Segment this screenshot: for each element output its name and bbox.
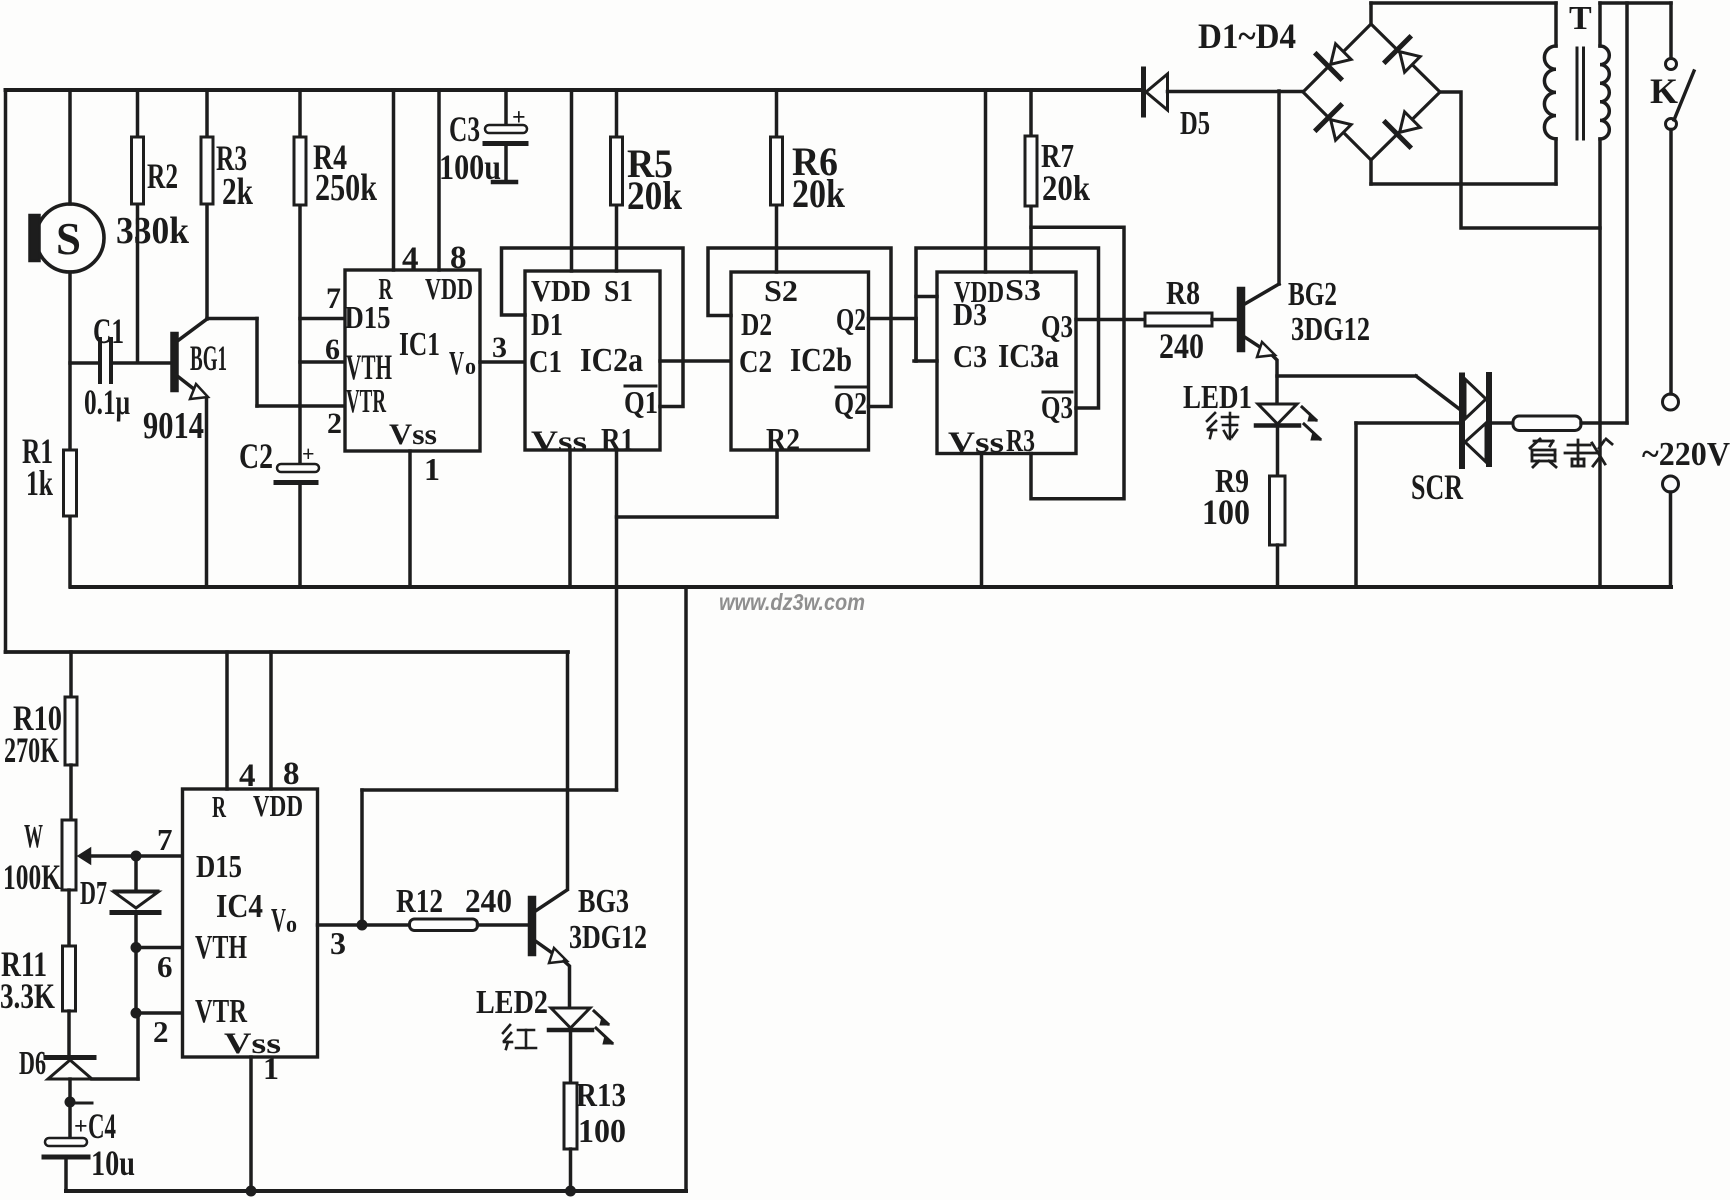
svg-text:C1: C1 bbox=[529, 343, 562, 379]
svg-text:R2: R2 bbox=[766, 421, 800, 457]
svg-text:VDD: VDD bbox=[253, 788, 303, 823]
capacitor C3 bbox=[439, 90, 527, 187]
svg-text:Vss: Vss bbox=[531, 425, 587, 458]
wire IC2a to IC2b bbox=[660, 359, 731, 363]
junction Vo node bbox=[357, 920, 368, 931]
svg-text:Q1: Q1 bbox=[624, 384, 658, 420]
svg-text:S2: S2 bbox=[764, 273, 798, 308]
svg-text:3: 3 bbox=[492, 331, 507, 364]
svg-text:C2: C2 bbox=[739, 343, 772, 379]
resistor R11 bbox=[0, 944, 76, 1016]
svg-text:4: 4 bbox=[402, 241, 419, 277]
junction below D6 bbox=[65, 1097, 93, 1108]
wire bottom ground bus bbox=[66, 1189, 686, 1193]
svg-text:250k: 250k bbox=[315, 167, 378, 209]
wire W bottom bbox=[67, 890, 71, 946]
microphone S bbox=[30, 204, 105, 272]
switch K bbox=[1650, 3, 1694, 130]
IC IC4 bbox=[183, 788, 318, 1060]
svg-text:100K: 100K bbox=[3, 857, 61, 897]
wire left border bbox=[4, 90, 8, 652]
resistor R6 bbox=[771, 137, 846, 216]
triac SCR bbox=[1411, 375, 1489, 507]
label green lv bbox=[1207, 413, 1238, 439]
wire IC1 pin1 bbox=[410, 451, 440, 587]
wire IC3a Q3 out bbox=[1076, 318, 1145, 322]
wire bridge right bbox=[1440, 92, 1600, 228]
terminal 220V bottom bbox=[1663, 476, 1679, 492]
wire C4 to bus bbox=[64, 1160, 68, 1191]
svg-text:20k: 20k bbox=[792, 171, 846, 216]
IC IC3a bbox=[937, 272, 1076, 459]
svg-text:20k: 20k bbox=[627, 173, 683, 218]
wire top supply bus bbox=[6, 88, 1144, 92]
wire bridge top bbox=[1371, 3, 1556, 24]
diode D5 bbox=[1144, 69, 1211, 142]
svg-text:2: 2 bbox=[153, 1014, 169, 1049]
svg-text:8: 8 bbox=[450, 240, 467, 276]
wire R4 column bbox=[298, 90, 302, 464]
IC IC2b bbox=[731, 272, 869, 457]
svg-text:BG1: BG1 bbox=[190, 338, 227, 378]
wire C2 down bbox=[298, 486, 302, 587]
wire IC1 pin4 bbox=[394, 90, 419, 277]
label load fuzai bbox=[1530, 439, 1612, 467]
svg-text:VTH: VTH bbox=[346, 347, 392, 387]
wire R7 to R3 loop bbox=[1031, 227, 1124, 498]
wire reset to bottom bbox=[362, 788, 617, 792]
wire SCR to load bbox=[1492, 421, 1513, 425]
diode D6 bbox=[19, 1045, 94, 1082]
svg-text:D5: D5 bbox=[1180, 105, 1210, 142]
wire IC3a wrap D3-Q3 bbox=[916, 248, 1099, 408]
potentiometer W bbox=[3, 818, 90, 897]
transformer T right winding bbox=[1600, 3, 1609, 587]
svg-text:R2: R2 bbox=[147, 156, 178, 196]
wire pin6 link IC4 bbox=[136, 948, 183, 985]
junction pin2 node bbox=[131, 1008, 142, 1019]
svg-text:C3: C3 bbox=[449, 109, 480, 149]
svg-text:D2: D2 bbox=[741, 306, 772, 342]
svg-text:D15: D15 bbox=[345, 299, 391, 335]
wire D5 to bridge bbox=[1168, 90, 1304, 94]
transformer T left winding bbox=[1544, 0, 1592, 184]
svg-text:BG3: BG3 bbox=[578, 883, 629, 920]
svg-text:LED2: LED2 bbox=[476, 984, 548, 1021]
svg-text:1k: 1k bbox=[26, 463, 53, 503]
wire IC2a Vss down bbox=[568, 450, 572, 587]
svg-text:IC3a: IC3a bbox=[998, 338, 1059, 375]
svg-text:Vss: Vss bbox=[389, 418, 437, 451]
wire R9 down bbox=[1276, 545, 1280, 587]
wire R7 S3 column bbox=[1029, 90, 1033, 272]
svg-text:3DG12: 3DG12 bbox=[1291, 311, 1370, 348]
svg-text:1: 1 bbox=[424, 451, 440, 487]
svg-text:VDD: VDD bbox=[531, 273, 591, 308]
wire R13 down bbox=[569, 1149, 573, 1191]
svg-text:S1: S1 bbox=[604, 273, 633, 308]
wire D7 top bbox=[134, 856, 138, 889]
svg-text:BG2: BG2 bbox=[1288, 276, 1337, 313]
IC IC2a bbox=[525, 271, 660, 458]
wire LED1 to R9 bbox=[1276, 427, 1280, 476]
svg-text:D15: D15 bbox=[196, 848, 242, 884]
wire bus to bottom right border bbox=[684, 587, 688, 1191]
junction pin6 node bbox=[131, 942, 142, 953]
wire pin2 column to D6 anode bbox=[92, 1013, 138, 1079]
transistor BG3 bbox=[529, 883, 647, 963]
svg-text:S3: S3 bbox=[1005, 272, 1041, 307]
wire IC3a Vss down bbox=[980, 454, 984, 588]
svg-text:6: 6 bbox=[157, 949, 173, 984]
svg-text:Q2: Q2 bbox=[834, 385, 867, 421]
label pin2 bbox=[327, 407, 342, 440]
IC IC1 bbox=[345, 270, 481, 451]
wire IC3a VDD bbox=[984, 90, 988, 272]
wire IC4 pin8 bbox=[271, 652, 300, 792]
svg-text:Q2: Q2 bbox=[836, 301, 866, 337]
svg-text:4: 4 bbox=[239, 758, 256, 794]
wire load riser bbox=[1625, 3, 1629, 423]
svg-text:C3: C3 bbox=[953, 338, 987, 374]
svg-text:SCR: SCR bbox=[1411, 467, 1464, 507]
svg-text:240: 240 bbox=[465, 883, 512, 920]
wire BG3 emitter down bbox=[564, 961, 570, 1008]
resistor R5 bbox=[611, 137, 683, 218]
wire R11 to D6 bbox=[67, 1011, 71, 1057]
wire IC2b Q2 out bbox=[869, 317, 917, 321]
wire reset column R1 bbox=[615, 450, 619, 790]
svg-text:C4: C4 bbox=[88, 1106, 116, 1146]
capacitor C1 bbox=[84, 311, 130, 422]
resistor R3 bbox=[201, 137, 254, 213]
wire R8 to BG2 bbox=[1212, 318, 1238, 322]
wire bridge bottom bbox=[1371, 160, 1556, 184]
wire D7 to pin6 bbox=[134, 916, 138, 948]
label ~220V bbox=[1642, 436, 1730, 473]
svg-text:7: 7 bbox=[157, 822, 173, 857]
wire IC1 pin8 bbox=[439, 90, 467, 276]
wire BG3 collector riser bbox=[566, 652, 570, 889]
junction pin1 bus bbox=[246, 1186, 257, 1197]
svg-text:D1: D1 bbox=[531, 306, 563, 342]
wire R3 column bbox=[205, 90, 209, 319]
wire D6 down bbox=[68, 1079, 72, 1102]
svg-text:D7: D7 bbox=[80, 875, 107, 912]
wire R2 column bbox=[136, 90, 140, 361]
svg-text:2k: 2k bbox=[222, 171, 254, 213]
svg-text:VDD: VDD bbox=[425, 271, 473, 306]
svg-text:V: V bbox=[449, 345, 464, 382]
svg-text:D6: D6 bbox=[19, 1045, 46, 1082]
resistor R13 bbox=[564, 1077, 626, 1150]
wire R10 to W bbox=[69, 765, 73, 820]
wire middle ground bus bbox=[71, 585, 1671, 589]
svg-text:K: K bbox=[1650, 71, 1678, 111]
svg-text:+: + bbox=[512, 105, 526, 131]
svg-text:3DG12: 3DG12 bbox=[569, 919, 647, 956]
svg-text:www.dz3w.com: www.dz3w.com bbox=[719, 589, 865, 615]
wire IC1 Vo out pin3 bbox=[480, 331, 525, 364]
svg-text:C2: C2 bbox=[239, 436, 273, 476]
wire SCR gate bbox=[1277, 376, 1462, 411]
wire collector link down bbox=[255, 319, 259, 407]
resistor R10 bbox=[4, 697, 77, 770]
svg-text:VTR: VTR bbox=[346, 383, 386, 420]
wire BG1 emitter down bbox=[205, 399, 209, 587]
svg-text:IC2a: IC2a bbox=[580, 342, 643, 379]
svg-text:100: 100 bbox=[578, 1113, 626, 1150]
wire top right bbox=[1600, 1, 1671, 5]
svg-text:+: + bbox=[302, 441, 315, 466]
resistor R4 bbox=[294, 137, 378, 209]
transistor BG2 bbox=[1238, 276, 1370, 357]
svg-text:W: W bbox=[24, 818, 43, 855]
wire K down bbox=[1669, 130, 1673, 395]
svg-text:R13: R13 bbox=[576, 1077, 626, 1114]
svg-text:D3: D3 bbox=[953, 296, 987, 332]
wire 220V to bus bbox=[1669, 492, 1673, 587]
svg-text:3.3K: 3.3K bbox=[0, 976, 55, 1016]
wire to C4 bbox=[68, 1103, 72, 1141]
wire V+ rail to bottom section bbox=[6, 650, 569, 654]
wire IC4 pin1 bbox=[251, 1050, 279, 1191]
wire R6 S2 column bbox=[775, 90, 779, 272]
wire IC2a wrap D1-Q1 bbox=[502, 248, 684, 407]
svg-text:VTR: VTR bbox=[195, 993, 247, 1030]
wire IC2b R2 down bbox=[775, 450, 779, 517]
svg-text:C1: C1 bbox=[93, 311, 124, 351]
svg-text:D1~D4: D1~D4 bbox=[1198, 16, 1296, 56]
svg-text:+: + bbox=[74, 1114, 88, 1140]
transistor BG1 bbox=[143, 319, 227, 447]
wire Vo to R12 bbox=[362, 923, 410, 927]
svg-text:20k: 20k bbox=[1042, 168, 1090, 208]
resistor R12 bbox=[396, 883, 512, 931]
capacitor C4 bbox=[44, 1106, 135, 1183]
svg-text:3: 3 bbox=[330, 925, 346, 961]
svg-text:IC2b: IC2b bbox=[790, 342, 852, 379]
wire pin6 link bbox=[300, 360, 345, 364]
capacitor C2 bbox=[239, 436, 319, 483]
svg-text:2: 2 bbox=[327, 407, 342, 440]
wire collector link right bbox=[207, 317, 257, 321]
wire pin7 link bbox=[300, 317, 345, 321]
svg-text:S: S bbox=[56, 213, 81, 264]
svg-text:100: 100 bbox=[1202, 492, 1250, 532]
svg-text:1: 1 bbox=[263, 1050, 279, 1086]
diode D7 bbox=[80, 875, 159, 913]
LED LED1 bbox=[1183, 379, 1321, 440]
svg-text:V: V bbox=[271, 902, 286, 939]
wire D7 column down bbox=[134, 948, 138, 1014]
label red hong bbox=[503, 1025, 536, 1049]
wire C1 to BG1 base bbox=[113, 361, 171, 365]
svg-text:330k: 330k bbox=[116, 210, 190, 252]
wire pin2 link IC4 bbox=[136, 1013, 183, 1049]
wire IC2a VDD bbox=[570, 90, 574, 271]
resistor R1 bbox=[22, 431, 77, 516]
svg-text:Q3: Q3 bbox=[1041, 389, 1073, 425]
wire mic down to R1 and bus bbox=[68, 272, 72, 587]
wire reset link R1-R2 bbox=[617, 515, 778, 519]
svg-text:10u: 10u bbox=[91, 1143, 135, 1183]
wire IC2b wrap D2-Q2 bbox=[708, 248, 891, 407]
terminal 220V top bbox=[1663, 394, 1679, 410]
label pin7 bbox=[326, 282, 341, 315]
bridge rectifier D1-D4 bbox=[1303, 24, 1440, 160]
wire IC4 pin4 bbox=[227, 652, 256, 794]
watermark bbox=[719, 589, 865, 615]
wire VTR node wire bbox=[257, 404, 345, 408]
wire LED2 to R13 bbox=[569, 1032, 573, 1083]
wire BG2 collector up bbox=[1277, 91, 1281, 284]
svg-text:T: T bbox=[1569, 0, 1592, 37]
resistor load bbox=[1513, 416, 1581, 431]
wire C1 left lead bbox=[70, 361, 98, 365]
label D1~D4 bbox=[1198, 16, 1296, 56]
svg-text:o: o bbox=[286, 912, 297, 938]
wire Q2 into C3 pin bbox=[914, 319, 937, 362]
svg-text:R8: R8 bbox=[1166, 275, 1200, 312]
label pin6 bbox=[325, 333, 340, 366]
resistor R9 bbox=[1202, 463, 1285, 545]
svg-text:270K: 270K bbox=[4, 730, 59, 770]
svg-text:IC4: IC4 bbox=[216, 888, 263, 925]
svg-text:100u: 100u bbox=[439, 147, 501, 187]
resistor R2 bbox=[116, 137, 190, 252]
svg-text:6: 6 bbox=[325, 333, 340, 366]
wire reset drop to Vo bbox=[360, 790, 364, 925]
resistor R7 bbox=[1025, 136, 1090, 208]
svg-text:VTH: VTH bbox=[195, 929, 247, 966]
svg-text:R12: R12 bbox=[396, 883, 443, 920]
wire SCR anode riser bbox=[1356, 423, 1459, 587]
wire R10 top bbox=[69, 652, 73, 697]
svg-text:Vss: Vss bbox=[948, 426, 1004, 459]
svg-text:0.1μ: 0.1μ bbox=[84, 382, 130, 422]
wire BG2 emitter node bbox=[1273, 356, 1277, 404]
svg-text:240: 240 bbox=[1159, 326, 1204, 366]
svg-text:9014: 9014 bbox=[143, 405, 204, 447]
svg-text:~220V: ~220V bbox=[1642, 436, 1730, 473]
wire W wiper to pin7 bbox=[88, 822, 183, 857]
svg-text:o: o bbox=[465, 354, 476, 380]
wire load right bbox=[1581, 421, 1627, 425]
svg-text:R: R bbox=[212, 789, 226, 824]
svg-text:7: 7 bbox=[326, 282, 341, 315]
resistor R8 bbox=[1145, 275, 1212, 366]
wire R5 S1 column bbox=[615, 90, 619, 271]
svg-text:IC1: IC1 bbox=[399, 326, 440, 363]
svg-text:LED1: LED1 bbox=[1183, 379, 1252, 416]
LED LED2 bbox=[476, 984, 613, 1044]
wire mic top bbox=[68, 90, 72, 204]
transformer core bbox=[1577, 48, 1584, 139]
junction R13 bus bbox=[565, 1186, 576, 1197]
wire R12 to BG3 bbox=[478, 923, 530, 927]
junction wiper-D7 bbox=[131, 851, 142, 862]
wire IC4 Vo out bbox=[318, 925, 363, 961]
svg-text:8: 8 bbox=[283, 756, 300, 792]
